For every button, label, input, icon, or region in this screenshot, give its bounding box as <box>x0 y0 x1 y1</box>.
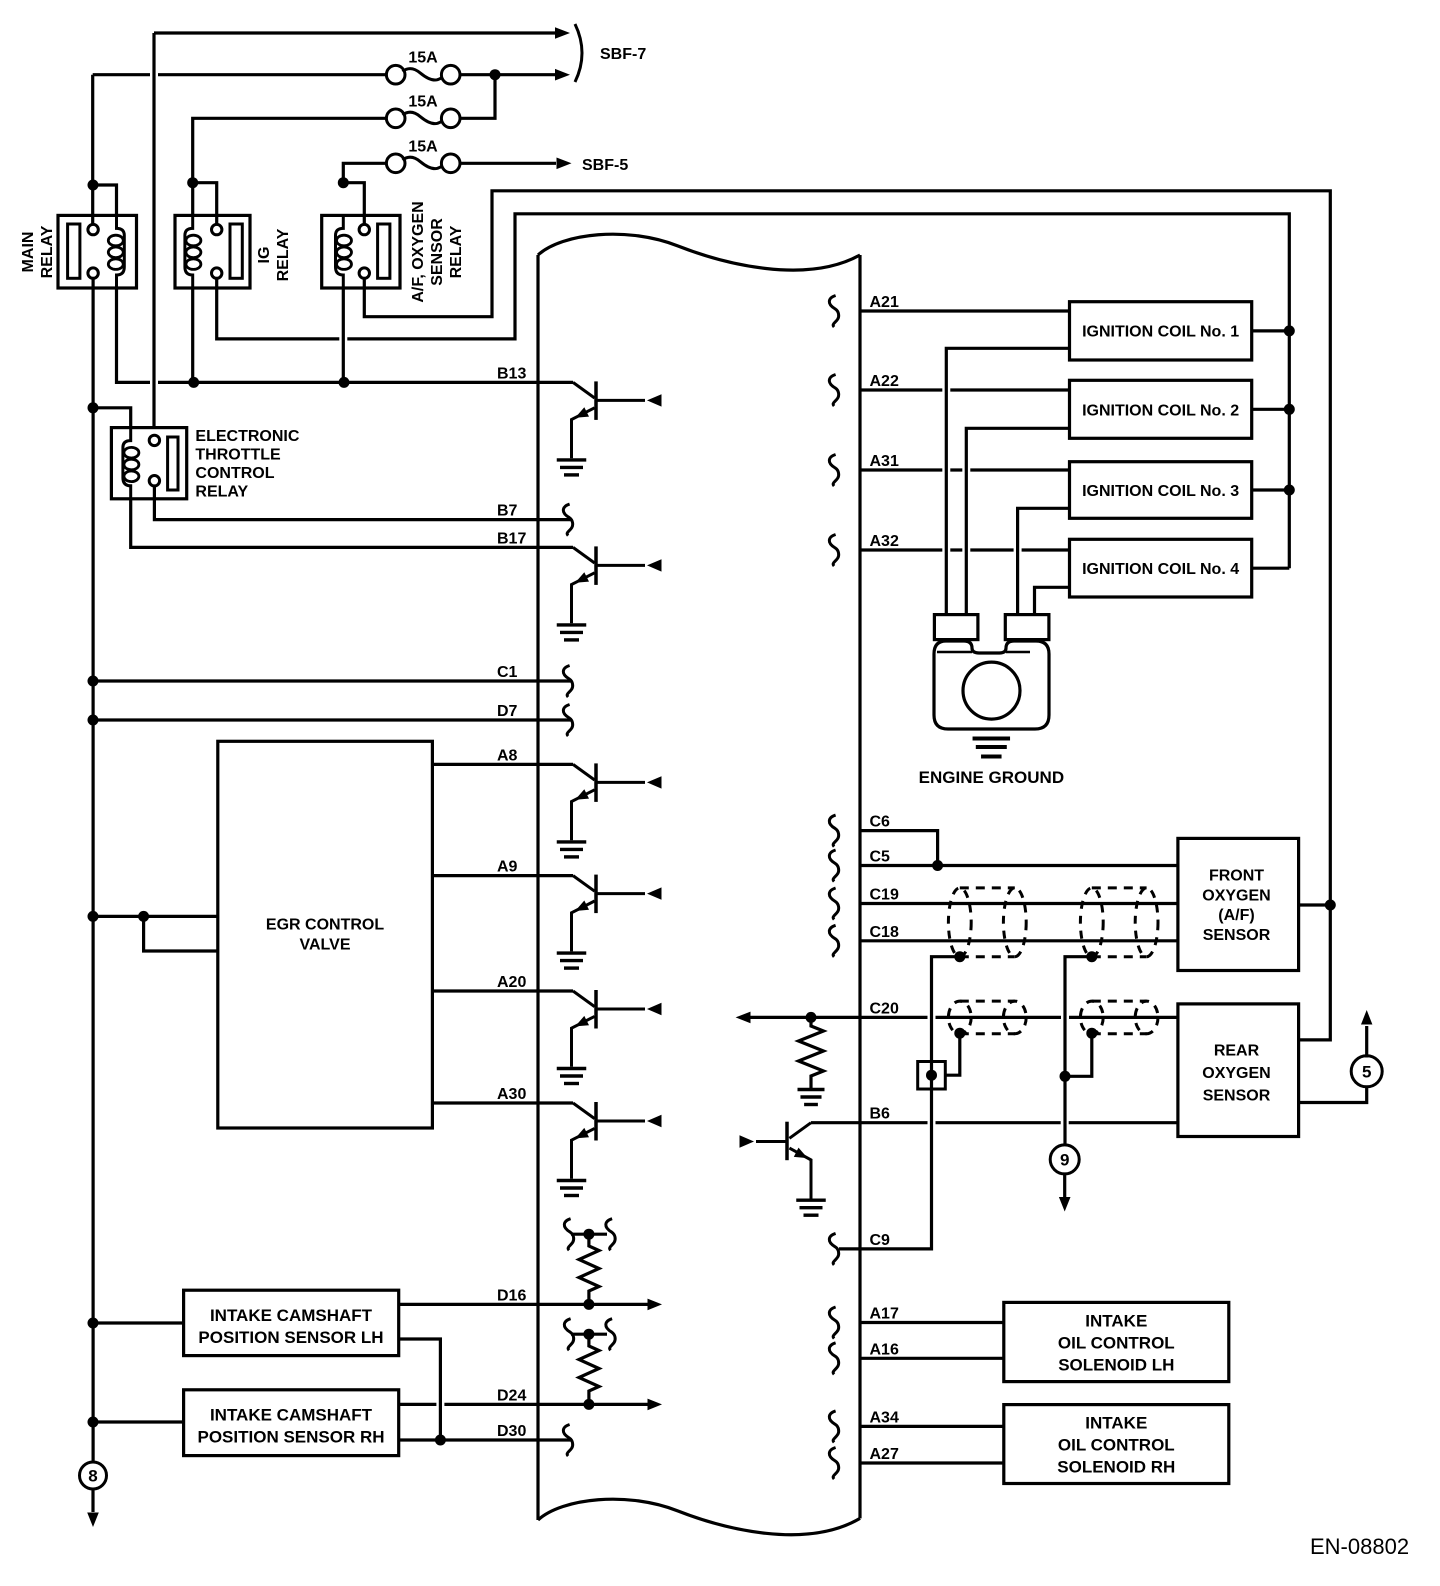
wire bus to pin C1 <box>93 679 572 682</box>
wire pin A27 to oil solenoid RH <box>860 1461 1004 1464</box>
node D16-resistor <box>583 1299 594 1310</box>
wire ignition coil 1 to engine ground <box>946 348 1069 614</box>
bracket at SBF-7 <box>575 24 582 82</box>
arrowhead to SBF-5 <box>557 158 572 170</box>
wire ignition coil 4 to engine ground <box>1035 587 1070 614</box>
INTAKE OIL CONTROL SOLENOID LH box <box>1004 1302 1229 1381</box>
node splice <box>926 1070 937 1081</box>
wire above circle 5 <box>1365 1026 1368 1058</box>
node B13-IG coil <box>188 377 199 388</box>
node bus to ETC coil <box>88 402 99 413</box>
svg-text:IG: IG <box>256 247 273 264</box>
svg-text:9: 9 <box>1060 1150 1069 1169</box>
svg-text:INTAKE CAMSHAFT: INTAKE CAMSHAFT <box>210 1406 373 1425</box>
relay MAIN coil <box>117 215 125 288</box>
svg-text:A30: A30 <box>497 1086 526 1103</box>
wire ignition coil 3 output <box>1252 488 1290 491</box>
wire ignition coil 2 output <box>1252 408 1290 411</box>
svg-text:POSITION SENSOR LH: POSITION SENSOR LH <box>198 1328 383 1347</box>
svg-text:SENSOR: SENSOR <box>1203 1088 1271 1105</box>
wire ignition coil 2 to engine ground <box>966 428 1069 614</box>
wire fuse F1 to SBF-7 <box>460 73 555 76</box>
relay A/F terminal bottom <box>359 268 369 278</box>
resistor R1 top stub <box>571 1233 607 1236</box>
svg-text:SBF-5: SBF-5 <box>582 157 628 174</box>
svg-text:A34: A34 <box>870 1409 899 1426</box>
squiggle A22 <box>829 375 838 407</box>
svg-text:MAIN: MAIN <box>20 232 37 273</box>
squiggle C5 <box>829 850 838 882</box>
svg-text:C20: C20 <box>870 1000 899 1017</box>
wire shield2 to connector 9 drop <box>1065 957 1092 1077</box>
engine ground bolt circle <box>963 662 1020 719</box>
node bus-camshaft RH <box>88 1417 99 1428</box>
svg-text:(A/F): (A/F) <box>1218 907 1254 924</box>
svg-text:IGNITION COIL No. 4: IGNITION COIL No. 4 <box>1082 561 1239 578</box>
wire MAIN relay coil to pin B13 <box>117 287 574 382</box>
relay ETC contact bar <box>168 437 178 490</box>
squiggle C18 <box>829 925 838 957</box>
wire pin A32 to ignition coil 4 <box>860 548 1070 551</box>
EGR CONTROL VALVE box <box>218 741 433 1128</box>
svg-text:THROTTLE: THROTTLE <box>195 447 281 464</box>
transistor Q6 (A30 driver) <box>573 1103 595 1119</box>
transistor Q7 (B6 input, mirrored) <box>789 1123 811 1139</box>
svg-text:SENSOR: SENSOR <box>1203 927 1271 944</box>
connector circle 8 <box>80 1462 107 1489</box>
svg-text:ELECTRONIC: ELECTRONIC <box>195 428 299 445</box>
wire shield3 to splice <box>932 1033 960 1075</box>
connector circle 5 <box>1351 1056 1382 1087</box>
svg-text:ENGINE GROUND: ENGINE GROUND <box>919 768 1064 787</box>
node bus-camshaft LH <box>88 1318 99 1329</box>
wire EGR to pin A30 <box>432 1101 573 1104</box>
svg-text:RELAY: RELAY <box>195 484 248 501</box>
relay A/F terminal top <box>359 224 369 234</box>
ground symbol (R3) <box>798 1088 825 1091</box>
wire EGR to pin A20 <box>432 989 573 992</box>
svg-text:15A: 15A <box>408 93 438 110</box>
svg-text:FRONT: FRONT <box>1209 868 1264 885</box>
wire bus to camshaft RH <box>93 1420 184 1423</box>
FRONT OXYGEN (A/F) SENSOR box <box>1178 838 1299 970</box>
wire pin C19 to front oxygen sensor <box>860 902 1178 905</box>
engine ground body seam <box>937 651 1030 654</box>
IGNITION COIL No. 4 box <box>1070 539 1252 597</box>
wire ETC relay supply drop (node SBF-7) <box>152 33 155 436</box>
wire ignition coil 4 output <box>1252 567 1290 570</box>
wire camshaft RH to pin D24 <box>399 1403 648 1406</box>
relay MAIN RELAY box <box>58 215 137 288</box>
squiggle B7 <box>563 504 572 535</box>
svg-text:OXYGEN: OXYGEN <box>1202 1065 1270 1082</box>
node D24-resistor <box>583 1399 594 1410</box>
relay A/F OXYGEN SENSOR RELAY box <box>322 215 400 288</box>
svg-text:RELAY: RELAY <box>448 225 465 278</box>
svg-text:OIL CONTROL: OIL CONTROL <box>1058 1334 1175 1353</box>
relay ETC terminal bottom <box>149 476 159 486</box>
wire EGR lower branch <box>144 916 218 951</box>
resistor R2 <box>579 1334 599 1404</box>
svg-text:EGR CONTROL: EGR CONTROL <box>266 917 384 934</box>
engine ground body <box>934 641 1049 729</box>
wire pin C5 to front oxygen sensor <box>860 864 1178 867</box>
wire bus to pin D7 <box>93 718 572 721</box>
wire IG relay switched output to ignition coils <box>217 214 1290 568</box>
node bus-C1 <box>88 676 99 687</box>
wire front oxygen sensor heater output <box>1299 903 1331 906</box>
svg-text:INTAKE: INTAKE <box>1085 1312 1147 1331</box>
relay MAIN terminal top <box>88 224 98 234</box>
svg-text:15A: 15A <box>408 50 438 67</box>
squiggle R1 right <box>606 1219 615 1251</box>
svg-text:SBF-7: SBF-7 <box>600 46 646 63</box>
transistor Q5 (A20 driver) <box>573 991 595 1007</box>
svg-text:C9: C9 <box>870 1232 891 1249</box>
node MAIN relay feed split <box>88 180 99 191</box>
svg-text:IGNITION COIL No. 3: IGNITION COIL No. 3 <box>1082 483 1239 500</box>
wire ETC contact to pin B7 <box>154 486 572 520</box>
relay ETC coil <box>123 428 131 499</box>
svg-text:C6: C6 <box>870 814 891 831</box>
svg-text:INTAKE: INTAKE <box>1085 1414 1147 1433</box>
svg-text:A32: A32 <box>870 533 899 550</box>
squiggle A27 <box>829 1448 838 1480</box>
resistor R2 top stub <box>571 1333 607 1336</box>
svg-text:RELAY: RELAY <box>275 228 292 281</box>
arrowhead D24 <box>648 1399 663 1411</box>
wire shield1 to splice <box>932 957 960 1062</box>
svg-text:SOLENOID LH: SOLENOID LH <box>1058 1356 1174 1375</box>
node shield3 ground tap <box>954 1028 965 1039</box>
svg-text:C5: C5 <box>870 849 891 866</box>
wire A/F relay coil drop <box>342 287 345 382</box>
node R1 top <box>583 1229 594 1240</box>
svg-text:A27: A27 <box>870 1446 899 1463</box>
squiggle R2 right <box>606 1319 615 1351</box>
wire pin C20 to rear oxygen sensor <box>750 1016 1178 1019</box>
wire rear oxygen sensor to connector 5 <box>1299 1087 1367 1103</box>
wire camshaft RH to pin D30 <box>399 1438 572 1441</box>
squiggle D30 <box>563 1425 572 1457</box>
svg-text:RELAY: RELAY <box>39 225 56 278</box>
IGNITION COIL No. 3 box <box>1070 462 1252 519</box>
wire EGR to pin A9 <box>432 874 573 877</box>
node shield4 ground tap <box>1086 1028 1097 1039</box>
arrowhead up (5) <box>1361 1010 1372 1025</box>
shield tube 1 (C19/C18 left) <box>948 888 971 957</box>
svg-text:D30: D30 <box>497 1423 526 1440</box>
svg-text:IGNITION COIL No. 2: IGNITION COIL No. 2 <box>1082 402 1239 419</box>
svg-text:5: 5 <box>1362 1062 1371 1081</box>
INTAKE CAMSHAFT POSITION SENSOR RH box <box>184 1390 399 1456</box>
svg-text:VALVE: VALVE <box>300 937 351 954</box>
wire IG relay coil drop to B13 node <box>191 183 194 216</box>
wire bus to EGR upper <box>93 915 218 918</box>
squiggle C1 <box>563 666 572 698</box>
node shield1 ground tap <box>954 951 965 962</box>
INTAKE CAMSHAFT POSITION SENSOR LH box <box>184 1290 399 1355</box>
node EGR branch <box>138 911 149 922</box>
wire A/F relay feed to fuse F3 <box>343 163 386 182</box>
squiggle A21 <box>829 296 838 328</box>
ECM right edge <box>858 255 861 1518</box>
relay MAIN contact bar <box>68 224 80 278</box>
node shield2 ground tap <box>1086 951 1097 962</box>
svg-text:A22: A22 <box>870 373 899 390</box>
shield tube 3 (C20 left) <box>948 1001 971 1034</box>
svg-text:A9: A9 <box>497 859 518 876</box>
svg-text:B7: B7 <box>497 503 518 520</box>
squiggle A16 <box>829 1343 838 1375</box>
ECM bottom wavy edge <box>538 1499 860 1535</box>
svg-text:8: 8 <box>88 1467 97 1486</box>
wire ignition coil 1 output <box>1252 329 1290 332</box>
wire SBF-7 top line <box>154 31 555 34</box>
svg-text:SENSOR: SENSOR <box>429 218 446 286</box>
wire A/F relay contact feed <box>343 183 364 225</box>
squiggle C9 <box>829 1233 838 1265</box>
relay ETC terminal top <box>149 435 159 445</box>
node IG relay feed split <box>187 177 198 188</box>
squiggle C6 <box>829 815 838 847</box>
arrowhead to SBF-7 (fuse row) <box>555 69 570 81</box>
REAR OXYGEN SENSOR box <box>1178 1004 1299 1137</box>
engine ground terminal block right <box>1005 615 1049 640</box>
node R2 top <box>583 1329 594 1340</box>
resistor R1 <box>579 1234 599 1304</box>
wire pin B6 to rear oxygen sensor <box>811 1121 1178 1124</box>
svg-text:C18: C18 <box>870 924 899 941</box>
arrowhead D16 <box>648 1299 663 1311</box>
wire IG relay coil drop <box>191 287 194 382</box>
fuse F2 15A <box>386 109 405 128</box>
arrowhead down (8) <box>87 1513 99 1528</box>
node A/F relay feed split <box>338 177 349 188</box>
wire pin C18 to front oxygen sensor <box>860 939 1178 942</box>
node coil1-IG supply <box>1284 325 1295 336</box>
arrowhead down (9) <box>1059 1197 1071 1212</box>
INTAKE OIL CONTROL SOLENOID RH box <box>1004 1405 1229 1484</box>
svg-text:C1: C1 <box>497 664 518 681</box>
wire camshaft LH to pin D16 <box>399 1303 648 1306</box>
svg-text:IGNITION COIL No. 1: IGNITION COIL No. 1 <box>1082 324 1239 341</box>
node connector 9 junction <box>1060 1071 1071 1082</box>
node D30 junction <box>435 1435 446 1446</box>
squiggle D7 <box>563 705 572 737</box>
resistor R3 (C20 pull-down) <box>799 1017 824 1088</box>
squiggle A31 <box>829 455 838 487</box>
engine ground terminal block left <box>934 615 978 640</box>
wire ETC coil to pin B17 <box>131 498 573 547</box>
node coil2-IG supply <box>1284 404 1295 415</box>
relay ELECTRONIC THROTTLE CONTROL box <box>111 428 186 499</box>
wire pin A21 to ignition coil 1 <box>860 309 1070 312</box>
svg-text:OIL CONTROL: OIL CONTROL <box>1058 1436 1175 1455</box>
fuse F1 15A <box>386 65 405 84</box>
svg-text:B13: B13 <box>497 365 526 382</box>
svg-text:A/F, OXYGEN: A/F, OXYGEN <box>410 201 427 302</box>
wire bus to ETC relay coil <box>93 408 131 428</box>
arrowhead to SBF-7 (top) <box>555 27 570 39</box>
IGNITION COIL No. 1 box <box>1070 302 1252 360</box>
svg-text:A8: A8 <box>497 747 518 764</box>
transistor Q3 (A8 driver) <box>573 764 595 780</box>
node C6-C5 junction <box>932 860 943 871</box>
wire pin A31 to ignition coil 3 <box>860 468 1070 471</box>
wire fuse F1 to MAIN relay contact <box>91 75 94 225</box>
relay A/F coil <box>336 215 344 288</box>
node bus-EGR <box>88 911 99 922</box>
transistor Q2 (B17 driver) <box>573 547 595 563</box>
IGNITION COIL No. 2 box <box>1070 380 1252 438</box>
svg-text:D16: D16 <box>497 1287 526 1304</box>
squiggle A17 <box>829 1307 838 1339</box>
wire A/F relay switched output to oxygen sensor heaters <box>364 191 1330 1040</box>
node C20-pullup resistor <box>806 1012 817 1023</box>
svg-text:15A: 15A <box>408 138 438 155</box>
wire fuse F2 to SBF-7 node <box>460 75 495 119</box>
svg-text:D7: D7 <box>497 703 518 720</box>
svg-text:OXYGEN: OXYGEN <box>1202 887 1270 904</box>
fuse F3 15A <box>386 154 405 173</box>
wire IG relay contact feed <box>193 183 217 225</box>
squiggle A34 <box>829 1411 838 1443</box>
wire pin C6 <box>860 831 938 866</box>
node SBF-7 junction <box>490 69 501 80</box>
relay IG terminal bottom <box>212 268 222 278</box>
node bus-D7 <box>88 715 99 726</box>
svg-text:C19: C19 <box>870 887 899 904</box>
svg-text:B17: B17 <box>497 530 526 547</box>
wire pin A16 to oil solenoid LH <box>860 1357 1004 1360</box>
squiggle C19 <box>829 888 838 920</box>
node heater supply junction <box>1325 900 1336 911</box>
wire main bus (MAIN relay output) <box>91 278 94 1462</box>
shield tube 4 (C20 right) <box>1080 1001 1103 1034</box>
wire pin A17 to oil solenoid LH <box>860 1321 1004 1324</box>
relay MAIN terminal bottom <box>88 268 98 278</box>
relay IG RELAY box <box>175 215 250 288</box>
arrowhead C20 (to ECM internals) <box>736 1012 751 1024</box>
squiggle R1 left <box>564 1219 573 1251</box>
relay IG terminal top <box>212 224 222 234</box>
svg-text:POSITION SENSOR RH: POSITION SENSOR RH <box>197 1428 384 1447</box>
svg-text:EN-08802: EN-08802 <box>1310 1534 1409 1559</box>
svg-text:A16: A16 <box>870 1341 899 1358</box>
wire ignition coil 3 to engine ground <box>1018 508 1070 614</box>
svg-text:SOLENOID RH: SOLENOID RH <box>1057 1458 1175 1477</box>
svg-text:A17: A17 <box>870 1306 899 1323</box>
ECM left edge <box>536 255 539 1520</box>
wire below circle 8 <box>91 1489 94 1512</box>
node B13-A/F coil <box>339 377 350 388</box>
wire below circle 9 <box>1063 1173 1066 1197</box>
shield tube 2 (C19/C18 right) <box>1080 888 1103 957</box>
wire bus to camshaft LH <box>93 1321 184 1324</box>
wire pin A22 to ignition coil 2 <box>860 388 1070 391</box>
svg-text:A31: A31 <box>870 453 899 470</box>
ground symbol (engine ground) <box>973 737 1011 741</box>
relay A/F contact bar <box>378 224 390 278</box>
wire camshaft LH second output to D30 node <box>399 1339 441 1440</box>
squiggle R2 left <box>564 1319 573 1351</box>
svg-text:INTAKE CAMSHAFT: INTAKE CAMSHAFT <box>210 1306 373 1325</box>
wire fuse F2 to IG relay <box>193 118 387 182</box>
wire to connector 9 <box>1063 1076 1066 1145</box>
transistor Q1 (B13 driver) <box>573 382 595 398</box>
wire splice through to pin C9 <box>839 1062 932 1249</box>
wire fuse F3 to SBF-5 <box>460 162 556 165</box>
ECM top wavy edge <box>538 234 860 270</box>
svg-text:D24: D24 <box>497 1387 526 1404</box>
squiggle A32 <box>829 535 838 567</box>
connector circle 9 <box>1050 1145 1079 1174</box>
svg-text:A20: A20 <box>497 974 526 991</box>
wire MAIN relay coil feed <box>93 185 117 216</box>
wire battery feed to fuse 15A No.1 <box>93 73 387 76</box>
relay IG contact bar <box>230 224 242 278</box>
svg-text:B6: B6 <box>870 1106 891 1123</box>
transistor Q4 (A9 driver) <box>573 876 595 892</box>
wire pin A34 to oil solenoid RH <box>860 1425 1004 1428</box>
svg-text:A21: A21 <box>870 294 899 311</box>
svg-text:CONTROL: CONTROL <box>195 465 274 482</box>
svg-text:REAR: REAR <box>1214 1043 1260 1060</box>
relay IG coil <box>185 215 193 288</box>
node coil3-IG supply <box>1284 485 1295 496</box>
wire shield4 to connector 9 node <box>1065 1033 1092 1076</box>
shield splice square <box>918 1062 946 1090</box>
wire EGR to pin A8 <box>432 763 573 766</box>
